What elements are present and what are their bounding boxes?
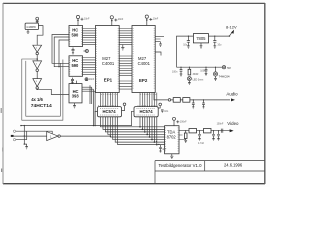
svg-text:590: 590 [72,33,80,38]
power symbol above HC590s [76,15,90,25]
rail cap 100nF [172,67,182,76]
ground below U4 [73,103,76,108]
LED resistor [188,67,198,76]
power LED [187,77,203,85]
connector J1 pins [11,130,52,141]
resistor to ground at DAC out [184,131,187,143]
regulator 7805 [193,34,208,43]
filter cap to ground at x=199.5 [198,131,201,141]
feedback wire loop outer [22,59,63,120]
svg-text:100nF: 100nF [180,121,187,124]
svg-text:Audio: Audio [226,92,238,97]
svg-text:HC574: HC574 [140,109,154,114]
wire sync out [60,135,110,137]
inverter IC1b (74HCT14) [33,61,42,69]
decoupling cap and +5V between counters [72,48,89,54]
audio cap to ground 1 [192,100,195,109]
EPROM2 right side pins [155,36,164,41]
wire audio tap from EPROM2 [154,93,168,100]
ground at oscillator [27,30,30,34]
wire T1 out to T2 in [36,55,38,61]
svg-text:4.43MHz: 4.43MHz [26,26,36,29]
svg-text:LED 3mm: LED 3mm [193,79,204,82]
rail cap 100nF #2 [200,67,207,75]
svg-text:10u: 10u [217,44,222,47]
series cap near video arrow [221,129,223,133]
svg-text:7805: 7805 [196,36,206,41]
svg-text:HC574: HC574 [103,109,117,114]
svg-text:4.7uF: 4.7uF [198,142,205,145]
counter U2 HC590 [69,26,83,47]
ground between EPROMs [121,45,124,51]
wire audio line [171,99,230,101]
counter U4 HC393 [69,81,82,103]
spare gate symbol [213,67,230,80]
latch U7 HC574 [95,107,122,117]
power symbol above EPROM2 [145,15,159,26]
svg-text:100nF: 100nF [217,122,224,125]
page border frame [3,2,265,4]
svg-text:10n: 10n [164,110,169,113]
title block [155,161,265,184]
wire HC590 #1 clock from chain [52,35,69,64]
ground below connector [24,144,28,149]
inverter IC1d sync [47,132,61,141]
wire T3 out to HC393 clock [37,89,69,95]
cap 10uF at 7805 output [183,36,190,48]
video arrow [230,129,234,132]
data pins EPROM2 to latch U8 [140,93,157,108]
svg-text:EP1: EP1 [104,78,113,83]
cap at DAC bottom left [159,145,167,152]
power symbol above oscillator [36,17,39,23]
inverter IC1a (74HCT14) [33,45,42,52]
pin label rows under EPROMs [101,93,157,95]
svg-text:Video: Video [227,121,239,126]
crystal oscillator box [25,23,38,29]
power symbol right of U8 [159,103,162,106]
bus wires U8 junctions [140,117,157,145]
EPROM U5 M27C4001 EP1 [96,26,120,93]
svg-text:C4001: C4001 [102,61,115,66]
+5V rail [177,66,223,68]
power symbol above EPROM1 [110,16,124,26]
pins U3 to EPROM1 [83,58,96,75]
8-12V input arrow [229,31,232,36]
counter U3 HC590 [69,56,83,77]
power symbol right of U7 [123,103,126,106]
power symbol above DAC [173,117,188,125]
svg-text:EP2: EP2 [139,78,148,83]
wire 7805 output left and down [177,36,194,67]
wire oscillator output to inverter chain [37,26,43,46]
resistor R audio 2 [183,98,190,103]
svg-text:74HCT14: 74HCT14 [31,103,52,109]
connector bus vertical [23,126,25,145]
wire EPROM2 vcc stub [155,52,161,56]
svg-text:Testbildgenerator V1.0: Testbildgenerator V1.0 [159,163,203,168]
svg-text:4u7: 4u7 [162,148,167,151]
cap 10uF at 7805 input [213,36,222,48]
wire HC590 #2 clock chain [54,37,69,67]
svg-text:10nF: 10nF [84,18,90,21]
wire ripple clock [59,40,69,67]
svg-text:590: 590 [72,63,80,68]
wire 7805 input right [209,35,230,37]
wire video line [179,130,230,132]
7805 ground pin [200,43,203,48]
pins U2 to EPROM1 [83,29,96,45]
svg-text:5V: 5V [227,66,231,70]
svg-text:8-12V: 8-12V [226,25,237,30]
cap right of U8 [161,110,164,113]
decoupling cap and +5V below U3 [71,78,95,84]
wires U4 down to bus [90,85,95,125]
filter inductor L2 [204,129,212,133]
svg-text:393: 393 [72,93,80,98]
pins U4 outputs [82,87,95,91]
ground below DAC [170,154,173,159]
latch U8 HC574 [134,107,158,117]
audio arrow [231,98,235,101]
bus wires from U4 to latches [21,111,134,125]
resistor R audio 1 [173,98,180,103]
svg-text:330R: 330R [193,73,199,76]
svg-text:74HC04: 74HC04 [219,74,230,78]
bus wires U7 to DAC [101,117,165,145]
svg-text:10u: 10u [183,44,188,47]
svg-text:10nF: 10nF [118,18,124,21]
scan artifact marks [1,108,3,172]
inverter IC1c (74HCT14) [33,79,42,87]
EPROM U6 M27C4001 EP2 [132,26,155,93]
svg-text:24.6.1996: 24.6.1996 [224,163,243,168]
data pins EPROM1 to latch U7 [101,93,118,108]
svg-text:C4001: C4001 [138,61,151,66]
audio cap to ground 2 [202,100,205,109]
filter cap to ground at x=213.5 [212,131,215,141]
wire T2 out to T3 in [36,71,38,78]
via circle on audio line [168,99,171,102]
svg-text:100n: 100n [172,70,178,73]
bus junction dots [139,126,157,145]
filter inductor L1 [189,129,197,133]
feedback wire loop inner [26,61,61,116]
DAC U9 TDA8702 [165,126,179,154]
filter cap to ground at x=218.5 [217,131,220,141]
svg-text:8702: 8702 [167,135,177,140]
svg-text:100n: 100n [200,70,206,73]
ground right of EPROM2 [159,42,162,47]
svg-text:10nF: 10nF [89,78,95,81]
+5V terminal [222,66,231,70]
wire sync in [14,135,47,137]
svg-text:10nF: 10nF [153,18,159,21]
address pins between EPROM1 and EPROM2 [119,29,132,45]
DAC aux pins right [179,135,186,140]
svg-text:4x 1/6: 4x 1/6 [31,97,43,102]
